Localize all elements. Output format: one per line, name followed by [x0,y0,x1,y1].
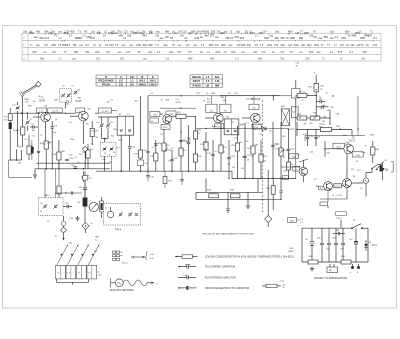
extra cap C3b [37,150,40,152]
indicator diamond [61,227,67,233]
center column box [84,171,86,175]
dark box right of meter [100,201,104,212]
dark cap low [30,147,33,154]
resistor R29 [209,194,219,198]
resistor R3 [44,141,48,149]
capacitor C17 [187,141,190,143]
wire out bottom [346,187,348,199]
osc trimmer C6 [62,94,65,96]
ps left wire [301,228,303,262]
svg-text:10k: 10k [290,164,293,166]
svg-text:560.2: 560.2 [150,80,157,83]
coupling line down [346,154,348,179]
extra resistor R2b [27,146,31,154]
left res column [57,186,61,194]
section divider dashed [261,100,263,214]
resistor R16 [204,142,208,150]
svg-text:MW: MW [191,30,196,33]
svg-text:FREQ RANGE: FREQ RANGE [98,80,114,83]
tap4 trimmer 1 [119,213,122,215]
svg-text:65p: 65p [40,58,45,61]
svg-text:53p: 53p [51,30,56,33]
svg-text:C4: C4 [255,43,259,47]
svg-text:OC72: OC72 [335,186,340,188]
svg-text:966: 966 [241,43,246,47]
svg-text:1k: 1k [223,152,225,154]
svg-text:LW: LW [111,30,115,33]
box left of T7 [319,186,327,190]
svg-text:(+): (+) [301,219,304,221]
capacitor C21 [243,155,246,157]
junction dots D [316,89,317,90]
svg-text:318: 318 [240,36,245,40]
svg-text:52k: 52k [127,34,132,38]
speaker jack [380,165,383,171]
svg-text:osc: osc [269,35,274,38]
alignment sub-table A [96,74,158,76]
wire lower rail stub [10,159,21,161]
alignment data table grid [22,32,381,34]
svg-text:MW: MW [345,30,350,33]
terminal arrow line [131,256,143,258]
svg-text:MINIATURE ELECTROLYTIC CAPAC: MINIATURE ELECTROLYTIC CAPACITOR [205,287,249,290]
capacitor C10 [65,158,68,160]
svg-text:1460.8: 1460.8 [149,83,157,86]
svg-text:383: 383 [221,43,226,47]
svg-text:2x: 2x [40,211,42,213]
svg-text:MW: MW [209,43,214,47]
hanging res below rail [164,171,166,176]
IF transformer S5 box [249,104,259,109]
ferrite rod antenna lead [22,85,36,93]
svg-text:POLYSTYRENE CAPACITOR: POLYSTYRENE CAPACITOR [205,276,236,279]
junction dots C [205,128,206,129]
svg-text:7.9: 7.9 [155,43,159,47]
transistor T3 [163,115,172,124]
svg-text:33p: 33p [23,30,28,33]
svg-text:64k: 64k [281,43,286,47]
capacitor C31 [66,205,68,208]
svg-text:517: 517 [119,83,124,86]
svg-text:MW: MW [188,58,193,61]
tap box B dashed [100,142,116,156]
box below out [320,202,328,206]
svg-text:osc: osc [186,44,191,47]
wires rail to tap2 [44,169,46,198]
svg-text:517: 517 [119,80,124,83]
svg-text:110: 110 [182,30,187,33]
svg-text:12p: 12p [91,30,96,33]
svg-text:4x: 4x [98,272,100,274]
second rail left [36,162,110,164]
svg-text:995: 995 [362,51,367,54]
svg-text:C13: C13 [44,36,49,40]
left horiz wire [55,192,82,194]
ps resistor R60 [308,260,318,264]
extra cap D [314,136,317,138]
svg-text:MW: MW [215,84,220,87]
svg-text:452 kHz: 452 kHz [246,99,253,101]
wire S6 leads [295,80,297,89]
resistor R1 [9,123,12,130]
svg-text:1k: 1k [325,93,327,95]
terminal row 3 [113,258,116,260]
capacitor C20 [227,156,230,158]
capacitor C13 trim [107,117,109,124]
node top rail A [13,112,40,114]
svg-text:B: B [105,76,107,79]
svg-text:C22: C22 [109,43,114,47]
svg-text:MW: MW [74,51,79,54]
wire R5 col [91,121,93,128]
svg-text:C4 C5: C4 C5 [52,111,59,113]
svg-text:459: 459 [70,30,75,33]
alignment sub-table B [190,74,223,76]
svg-text:1k: 1k [302,100,304,102]
wire det top [221,95,280,97]
svg-text:53k: 53k [280,36,285,40]
svg-text:3.5: 3.5 [358,30,362,33]
tap4 coil circle [107,211,113,217]
wire out stage [316,185,319,187]
ground bottom left [34,169,36,173]
battery cells BT1-BT4 with switch leads [56,265,66,279]
svg-text:MW: MW [288,30,293,33]
svg-text:MW: MW [166,100,170,102]
wire mid d [297,129,321,131]
svg-text:osc: osc [193,44,198,47]
transistor T7 [324,182,333,191]
IF transformer S2 box [117,116,134,135]
resistor R31 [271,186,275,195]
svg-text:R52: R52 [314,43,319,47]
ps transformer TR1 [327,267,338,272]
mains source symbol [115,279,123,287]
svg-text:SW-FT: SW-FT [193,80,201,83]
svg-text:712: 712 [165,58,170,61]
svg-text:4k: 4k [296,65,298,67]
svg-text:MW: MW [28,106,32,108]
svg-text:43k: 43k [274,36,279,40]
ps bottom rail [302,261,368,263]
IF transformer S4 box [220,104,231,112]
capacitor C16 [170,158,173,160]
tap4 trimmer 2 [129,213,132,215]
svg-text:R48: R48 [290,36,295,40]
resistor R17 [219,145,223,153]
svg-text:1k: 1k [108,155,110,157]
lower rail g1 [196,191,262,193]
svg-text:LW: LW [313,35,317,39]
box under T3 [161,124,170,129]
tuning gang C1A [16,106,19,108]
transistor T2 [79,111,89,121]
tap4 cap [135,213,138,215]
svg-text:1.5: 1.5 [58,58,62,61]
center column cap [84,180,86,187]
terminal bracket [145,252,148,261]
svg-text:60p: 60p [143,43,148,47]
svg-text:20p: 20p [141,30,146,33]
svg-text:72p: 72p [280,58,285,61]
capacitor C19 [211,153,214,155]
svg-text:C7 4k7: C7 4k7 [102,111,109,113]
svg-text:OC45: OC45 [75,101,82,103]
resistor R52 vertical [314,83,318,92]
svg-text:(-): (-) [301,222,303,224]
resistor R5 [90,129,94,137]
svg-text:660: 660 [95,51,100,54]
coil L1a box [37,108,47,113]
svg-text:10k: 10k [168,160,171,162]
value box C7 [99,108,112,113]
svg-text:6.8: 6.8 [96,58,100,61]
hanging stub below rail [181,171,183,179]
box below T4 [215,124,224,129]
svg-text:1.5: 1.5 [88,273,91,275]
ps cap C64 top [337,232,339,235]
wire T2 emitter down [82,121,84,144]
svg-text:57p: 57p [117,30,122,33]
tap B trimmer 2 [110,147,113,149]
svg-text:SUBJECT TO MODIFICATIONS: SUBJECT TO MODIFICATIONS [314,277,347,280]
ps right wire [367,228,369,262]
trimmer C8 [74,91,77,93]
ps cap C63 [342,228,344,242]
svg-text:TRACK: TRACK [102,83,111,86]
svg-text:32p: 32p [163,43,168,47]
resistor R28 [371,147,375,155]
capacitor C11 [74,166,77,168]
value box C30 [166,111,176,116]
terminal row 2 [113,255,116,257]
transistor T8 [343,179,352,188]
svg-text:1.9: 1.9 [235,58,239,61]
svg-text:28p: 28p [299,36,304,40]
svg-text:osc: osc [177,44,182,47]
svg-text:8.2: 8.2 [373,36,377,40]
agc line [196,128,242,130]
svg-text:877: 877 [188,51,193,54]
osc trimmer C7 [67,94,70,96]
capacitor C27 [226,208,229,210]
legend resistor symbol [175,256,182,258]
svg-text:M: M [141,76,143,79]
ground g [247,204,249,206]
svg-text:5.2: 5.2 [67,43,71,47]
svg-text:C34: C34 [372,43,377,47]
extra res R21b [286,162,290,170]
svg-text:ELECTRIC NETWORK: ELECTRIC NETWORK [110,290,134,292]
svg-text:995: 995 [205,30,210,33]
svg-text:C58: C58 [32,51,37,54]
svg-text:10k: 10k [241,168,244,170]
svg-text:1.6: 1.6 [335,35,339,39]
svg-text:TAP 2: TAP 2 [44,194,51,197]
resistor R12 [154,153,158,161]
diamond test point [82,146,88,152]
svg-text:5k log: 5k log [319,124,324,126]
wire g cols [205,178,207,192]
resistor R4 [57,152,61,160]
ps cap C62 [335,228,337,242]
svg-text:1.5: 1.5 [57,273,60,275]
upper feed line B [148,95,296,97]
wire T2 e2 [84,152,86,169]
wire r51 [296,95,297,97]
svg-text:LW: LW [29,30,33,33]
svg-text:29p: 29p [247,43,252,47]
svg-text:LW: LW [52,51,56,54]
svg-text:1.3k: 1.3k [215,80,220,83]
svg-text:osc: osc [288,44,293,47]
wire T2 base [70,115,79,117]
svg-text:1k: 1k [151,121,153,123]
svg-text:250 V: 250 V [337,218,343,220]
IF transformer T4 output box [224,119,239,135]
label T6 box [333,143,345,148]
resistor R30 [230,194,240,198]
svg-text:C1: C1 [230,36,234,40]
svg-text:237: 237 [210,34,215,38]
svg-text:OC45: OC45 [162,127,168,129]
tap box 2 dashed [39,198,64,216]
diamond jack [82,222,89,229]
wire osc to rail [65,102,67,108]
resistor R2 [21,127,25,135]
wire to T3 [160,113,163,115]
svg-text:37k: 37k [274,43,279,47]
svg-text:4.5 V: 4.5 V [372,245,378,247]
svg-text:C69: C69 [341,36,346,40]
svg-text:TAP 4: TAP 4 [115,229,122,232]
svg-text:115: 115 [340,43,345,47]
svg-text:1.2V: 1.2V [234,93,239,95]
terminal row 1 [113,251,116,253]
wire T6 base [325,148,344,150]
svg-text:9.3: 9.3 [349,51,353,54]
svg-text:402: 402 [120,58,125,61]
svg-text:osc: osc [121,44,126,47]
svg-text:1k: 1k [25,139,27,141]
transistor T6 [344,144,354,154]
wire tapB down [104,156,106,171]
svg-text:78p: 78p [72,43,77,47]
svg-text:1.5: 1.5 [67,273,70,275]
column x140 [140,96,142,150]
resistor R15 [193,154,197,162]
wire jack label [297,219,301,221]
svg-text:1k: 1k [16,150,18,152]
svg-text:LW: LW [165,35,169,39]
diode D1 [262,127,266,131]
svg-text:1.5: 1.5 [260,43,264,47]
trimmer C30 [54,205,57,207]
IF transformer S3 box [206,104,217,112]
tap B trimmer 1 [103,147,106,149]
ps diode D4 [365,240,367,244]
box below T5 [252,124,261,129]
svg-text:4.1: 4.1 [299,51,303,54]
box top right C [292,89,301,99]
svg-text:2.1: 2.1 [157,51,161,54]
resistor R13 [162,143,166,151]
resistor R54 [310,116,320,120]
legend ceramic symbol [178,266,187,268]
ps resistor R61 [341,260,351,264]
svg-text:osc: osc [160,37,165,40]
wire C9 column [51,121,53,127]
legend electrolytic symbol [178,287,186,289]
wire mid rail [51,112,76,114]
wire g right [265,198,281,200]
transistor T4 [214,113,224,123]
svg-text:33p: 33p [236,30,241,33]
svg-text:C: C [120,76,122,79]
svg-text:CAP: CAP [54,98,59,101]
label boxes right C [289,154,299,159]
svg-text:osc: osc [36,44,41,47]
svg-text:676: 676 [338,51,343,54]
long vertical right [295,113,297,178]
wire R4 column [58,140,60,152]
lower rail g2 [196,198,265,200]
svg-text:OC71: OC71 [349,140,356,142]
driver transformer box [334,184,342,188]
svg-text:osc: osc [204,35,209,38]
resistor R6 [86,150,90,158]
svg-text:MW: MW [148,43,153,47]
feed AF [281,166,300,168]
svg-text:2x: 2x [91,223,93,225]
meter circle [89,202,98,211]
svg-text:COLOUR CODED RESISTOR 5% (E: COLOUR CODED RESISTOR 5% (E24) UNLESS OT… [205,256,294,259]
transistor T1 [41,112,51,122]
capacitor C14 [146,150,149,152]
ps pin a [351,266,354,269]
hanging cap below rail [147,171,149,175]
capacitor C12 trim [101,117,103,124]
svg-text:C26: C26 [65,30,70,33]
wire b rail [95,112,99,114]
svg-text:90p: 90p [307,43,312,47]
svg-text:K: K [152,76,154,79]
jack bracket [391,162,393,173]
trimmer C29 [44,205,47,207]
svg-text:THE CIRCUIT AND DATA DRAWN: THE CIRCUIT AND DATA DRAWN IN POSITION ‘… [202,232,254,235]
svg-text:607: 607 [177,51,182,54]
capacitor C9 [51,126,54,128]
svg-text:LW: LW [301,43,305,47]
ps diode D3 [311,228,313,241]
ps pin b [357,266,360,269]
svg-text:0.5: 0.5 [215,43,219,47]
svg-text:3.7: 3.7 [69,34,73,38]
svg-text:C70: C70 [126,51,131,54]
center electrolytic dark [83,198,88,207]
svg-text:547: 547 [368,34,373,38]
svg-text:31p: 31p [148,51,153,54]
wire T1 emitter down [45,122,47,141]
svg-text:MW: MW [165,30,170,33]
wire r52 down [315,92,317,118]
speaker switch [372,164,378,168]
svg-text:MW-LW: MW-LW [192,76,201,79]
svg-text:595: 595 [211,30,216,33]
svg-text:1.6: 1.6 [201,43,205,47]
svg-text:560.2: 560.2 [139,80,146,83]
wire right col [280,178,282,190]
